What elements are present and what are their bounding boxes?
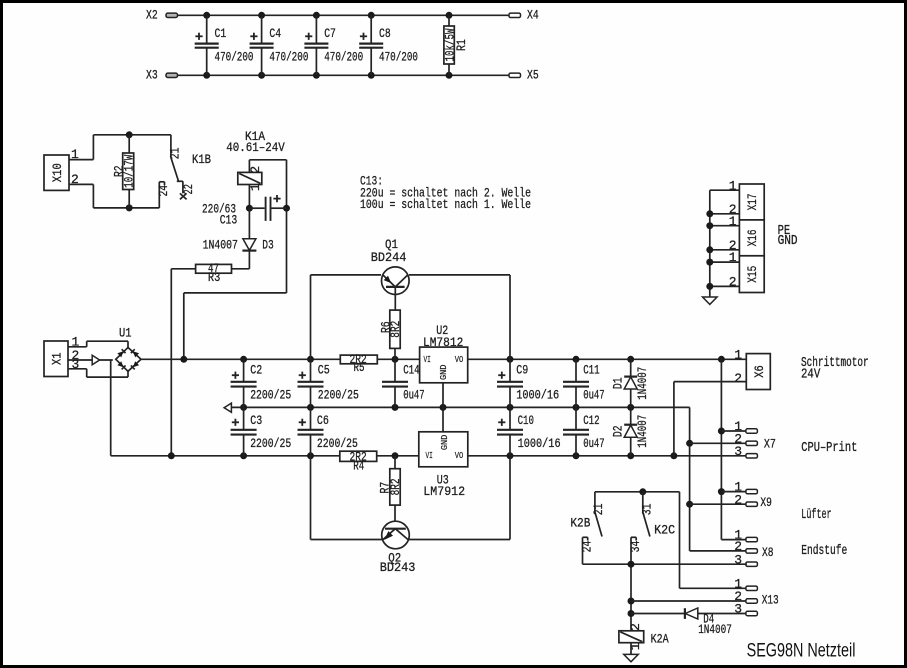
svg-text:0u47: 0u47 xyxy=(583,436,605,451)
svg-text:1N4007: 1N4007 xyxy=(698,622,732,637)
svg-text:X3: X3 xyxy=(146,67,158,82)
svg-text:X5: X5 xyxy=(527,67,539,82)
svg-text:R5: R5 xyxy=(354,360,365,375)
svg-text:R1: R1 xyxy=(454,39,469,51)
svg-text:21: 21 xyxy=(591,503,606,515)
svg-text:K2B: K2B xyxy=(570,516,590,531)
svg-text:X7: X7 xyxy=(764,437,776,452)
svg-text:470/200: 470/200 xyxy=(324,49,363,64)
svg-text:1: 1 xyxy=(729,214,737,229)
svg-text:GND: GND xyxy=(440,435,450,451)
svg-text:SEG98N Netzteil: SEG98N Netzteil xyxy=(747,640,856,661)
svg-text:24V: 24V xyxy=(801,366,821,382)
svg-text:C7: C7 xyxy=(324,26,336,41)
svg-text:2200/25: 2200/25 xyxy=(318,388,359,403)
svg-text:2200/25: 2200/25 xyxy=(250,388,291,403)
svg-text:BD243: BD243 xyxy=(380,560,416,575)
svg-text:40.61–24V: 40.61–24V xyxy=(226,140,285,155)
svg-text:0u47: 0u47 xyxy=(403,388,425,403)
svg-text:R7: R7 xyxy=(378,482,393,494)
svg-text:100u = schaltet nach 1. Welle: 100u = schaltet nach 1. Welle xyxy=(360,197,531,212)
svg-text:D3: D3 xyxy=(262,238,274,253)
svg-text:LM7912: LM7912 xyxy=(423,484,465,499)
svg-text:0u47: 0u47 xyxy=(583,388,605,403)
svg-text:1: 1 xyxy=(628,642,643,650)
svg-text:470/200: 470/200 xyxy=(379,49,418,64)
svg-text:C14: C14 xyxy=(403,363,420,378)
svg-text:X8: X8 xyxy=(762,545,774,560)
svg-text:BD244: BD244 xyxy=(371,250,407,265)
svg-text:X13: X13 xyxy=(762,593,779,608)
svg-text:C6: C6 xyxy=(317,413,329,428)
svg-text:X4: X4 xyxy=(527,7,539,22)
svg-text:1N4007: 1N4007 xyxy=(635,415,650,448)
svg-text:2: 2 xyxy=(729,275,737,290)
svg-text:VO: VO xyxy=(455,355,464,365)
svg-text:C13: C13 xyxy=(220,212,238,227)
svg-text:X6: X6 xyxy=(752,365,767,378)
svg-text:C2: C2 xyxy=(250,363,262,378)
svg-text:2: 2 xyxy=(71,172,79,187)
svg-text:VO: VO xyxy=(455,451,464,461)
svg-text:1000/16: 1000/16 xyxy=(516,388,559,403)
svg-text:2: 2 xyxy=(248,166,263,174)
svg-text:D2: D2 xyxy=(610,425,625,437)
svg-text:2: 2 xyxy=(734,371,742,386)
svg-text:K2C: K2C xyxy=(654,523,675,538)
svg-text:24: 24 xyxy=(580,541,595,553)
svg-text:D1: D1 xyxy=(610,377,625,389)
svg-text:Endstufe: Endstufe xyxy=(801,543,847,559)
svg-text:X16: X16 xyxy=(745,229,760,246)
svg-text:3: 3 xyxy=(72,357,80,372)
svg-text:470/200: 470/200 xyxy=(269,49,308,64)
svg-text:3: 3 xyxy=(734,602,742,617)
svg-text:C11: C11 xyxy=(583,363,600,378)
svg-text:1: 1 xyxy=(71,147,79,162)
svg-text:R3: R3 xyxy=(208,270,220,285)
svg-text:3: 3 xyxy=(734,444,742,459)
svg-text:R2: R2 xyxy=(111,165,126,177)
svg-text:K1B: K1B xyxy=(192,152,211,167)
svg-text:1000/16: 1000/16 xyxy=(518,436,561,451)
svg-text:GND: GND xyxy=(778,233,798,249)
svg-text:1N4007: 1N4007 xyxy=(203,238,238,253)
svg-text:C1: C1 xyxy=(215,26,227,41)
svg-text:X10: X10 xyxy=(50,163,65,182)
svg-text:1: 1 xyxy=(729,250,737,265)
svg-text:GND: GND xyxy=(439,365,449,381)
svg-text:X17: X17 xyxy=(745,193,760,210)
svg-text:1: 1 xyxy=(734,347,742,362)
svg-text:22: 22 xyxy=(181,184,196,194)
svg-text:X15: X15 xyxy=(745,266,760,283)
svg-text:C8: C8 xyxy=(379,26,391,41)
svg-text:CPU–Print: CPU–Print xyxy=(801,440,857,456)
svg-text:U1: U1 xyxy=(119,326,132,341)
svg-text:C10: C10 xyxy=(518,413,534,428)
svg-text:2: 2 xyxy=(628,623,643,631)
svg-text:31: 31 xyxy=(639,503,654,515)
svg-text:C12: C12 xyxy=(583,413,599,428)
svg-text:R6: R6 xyxy=(379,321,394,333)
svg-text:X9: X9 xyxy=(760,495,772,510)
svg-text:Lüfter: Lüfter xyxy=(801,507,831,523)
svg-text:470/200: 470/200 xyxy=(215,49,254,64)
svg-text:2: 2 xyxy=(734,492,742,507)
svg-text:C5: C5 xyxy=(318,363,330,378)
svg-text:VI: VI xyxy=(424,355,431,365)
svg-text:C9: C9 xyxy=(516,363,528,378)
svg-text:1: 1 xyxy=(729,178,737,193)
svg-text:2200/25: 2200/25 xyxy=(250,436,291,451)
svg-text:21: 21 xyxy=(168,147,183,159)
svg-text:X2: X2 xyxy=(146,7,158,22)
svg-text:K2A: K2A xyxy=(651,631,669,646)
svg-text:VI: VI xyxy=(426,451,433,461)
svg-text:24: 24 xyxy=(156,185,171,197)
svg-text:R4: R4 xyxy=(353,459,364,474)
svg-text:1N4007: 1N4007 xyxy=(635,367,650,400)
svg-text:C3: C3 xyxy=(250,413,262,428)
svg-text:C4: C4 xyxy=(269,26,281,41)
svg-text:34: 34 xyxy=(628,541,643,553)
svg-text:X1: X1 xyxy=(50,352,65,365)
